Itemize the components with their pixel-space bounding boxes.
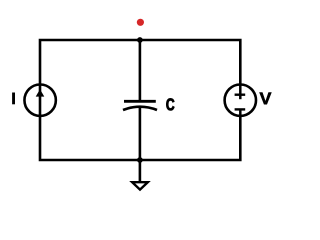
ground: hollow triangle — [132, 182, 148, 189]
wire loop: outer rectangle of circuit (top/bottom rails, left/right branches) — [40, 40, 240, 160]
junction dot: top node — [137, 37, 143, 43]
ground: stub wire — [139, 160, 142, 182]
voltage source V1: minus horizontal stroke — [235, 108, 246, 110]
wire: middle branch upper segment to capacitor — [139, 40, 142, 101]
current source I1: arrowhead — [36, 89, 45, 96]
label V — [260, 92, 272, 104]
red node marker — [137, 19, 144, 26]
wire: middle branch lower segment from capacitor — [139, 107, 142, 160]
label C — [166, 98, 174, 110]
voltage source V1: circle body — [225, 85, 256, 116]
current source I1: circle body — [24, 85, 55, 116]
voltage source V1: plus horizontal stroke — [235, 93, 246, 95]
label I — [12, 93, 15, 105]
capacitor C1: top plate — [124, 100, 156, 103]
junction dot: bottom node — [137, 157, 143, 163]
current source I1: internal wire — [39, 85, 42, 116]
voltage source V1: upper internal wire (plus vertical stroke) — [239, 85, 242, 99]
voltage source V1: lower internal wire — [239, 109, 242, 115]
capacitor C1: curved bottom plate — [123, 107, 157, 110]
